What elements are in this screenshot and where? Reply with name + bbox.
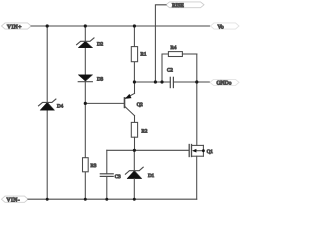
svg-text:Q2: Q2 [137, 102, 144, 108]
wire Q1 source to rail [196, 156, 198, 199]
svg-text:R1: R1 [141, 52, 147, 58]
wire D2/D3/R3 column [84, 26, 86, 199]
mosfet Q1 (N-channel) [189, 145, 213, 157]
wire R1 column [133, 26, 135, 82]
port RISE [166, 2, 204, 9]
svg-text:Q1: Q1 [207, 149, 214, 155]
resistor R2 [131, 122, 148, 150]
wire bottom rail VIN- [28, 198, 197, 200]
resistor R4 [162, 45, 197, 82]
port VIN- [2, 196, 29, 203]
transistor Q2 (PNP) [85, 82, 143, 122]
port GNDo [210, 79, 239, 86]
svg-text:R2: R2 [142, 129, 148, 135]
svg-text:VIN+: VIN+ [7, 24, 22, 30]
capacitor C3 [100, 174, 121, 199]
svg-text:C2: C2 [167, 68, 173, 74]
wire RISE to node [155, 5, 166, 82]
diode D1 (zener) [125, 150, 154, 199]
svg-text:Vo: Vo [218, 24, 224, 30]
wire top rail VIN+ to Vo [31, 25, 210, 27]
diode D4 (zener) [39, 99, 64, 110]
svg-text:D3: D3 [97, 77, 104, 83]
wire R4 right / Q1 drain [196, 54, 198, 145]
svg-text:D4: D4 [57, 104, 64, 110]
diode D2 (zener) [77, 38, 104, 48]
svg-text:RISE: RISE [172, 3, 185, 9]
port Vo [211, 23, 240, 30]
resistor R3 [83, 158, 97, 172]
capacitor C2 [167, 68, 173, 88]
svg-text:VIN-: VIN- [7, 198, 21, 204]
wire left column [46, 26, 48, 199]
svg-text:GNDo: GNDo [217, 81, 232, 87]
diode D3 [78, 75, 103, 83]
wire node line (emitter node) [134, 81, 170, 83]
svg-text:D1: D1 [148, 173, 155, 179]
svg-text:D2: D2 [97, 42, 104, 48]
svg-text:R4: R4 [171, 45, 177, 51]
wire gate node line [107, 149, 189, 151]
svg-text:C3: C3 [115, 174, 121, 180]
svg-text:R3: R3 [91, 163, 97, 169]
resistor R1 [131, 47, 147, 62]
port VIN+ [2, 23, 32, 30]
